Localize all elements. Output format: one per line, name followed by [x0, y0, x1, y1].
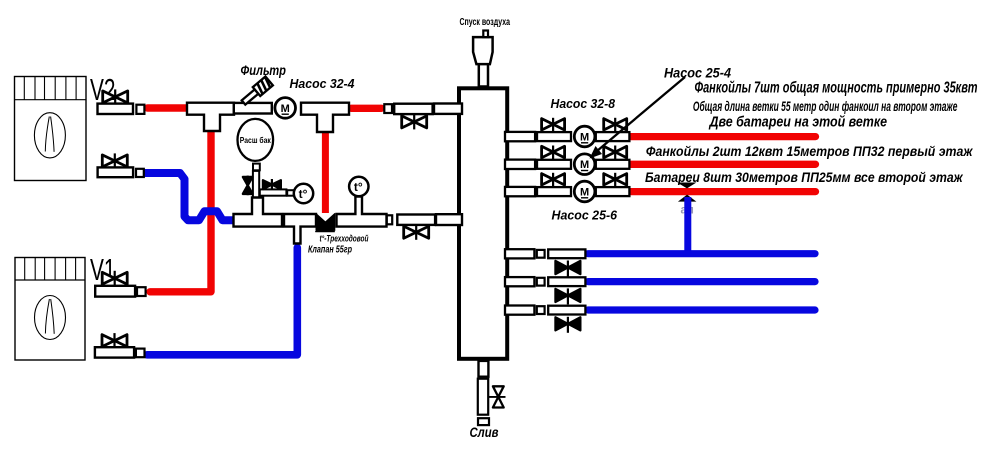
valve branch3b [604, 173, 627, 187]
connector square under tank [253, 164, 260, 171]
connector square before thermometer 1 [287, 190, 294, 196]
vertical valve on tank pipe [243, 176, 253, 196]
boiler V2 [15, 77, 87, 181]
svg-text:Насос 32-4: Насос 32-4 [290, 76, 356, 91]
battery tap: triangle above red pipe 3 [677, 183, 696, 189]
svg-text:Насос 25-6: Насос 25-6 [552, 208, 618, 223]
hydraulic separator [459, 88, 507, 359]
wire: red vertical from tee1 down to V1 supply corner [150, 129, 211, 292]
tee T2 on supply line [301, 103, 349, 132]
svg-text:Расш бак: Расш бак [240, 135, 272, 145]
valve branch3a [542, 173, 565, 187]
separator supply port (left) [434, 104, 462, 114]
pipe rect branch2a [537, 160, 571, 169]
valve on V2 supply [103, 89, 128, 104]
supply branch 2 (Насос 25-4) [505, 146, 816, 175]
svg-text:Спуск воздуха: Спуск воздуха [460, 17, 511, 28]
arrow from label Насос 25-4 to pump branch2 [597, 77, 685, 151]
pipe rect return1 [548, 249, 585, 258]
return branch 2 [505, 277, 815, 304]
air vent on separator top [473, 31, 493, 87]
filter F1 [240, 77, 273, 107]
pipe stub V1 return [95, 347, 134, 357]
svg-text:Фильтр: Фильтр [241, 63, 287, 78]
valve return2 [555, 288, 580, 304]
tee A on return line (stem up) [234, 198, 283, 227]
tee B on return line (stem down) [284, 214, 316, 244]
svg-text:Слив: Слив [470, 425, 499, 440]
valve branch1a [542, 118, 565, 132]
battery tap: arrow up below red pipe 3 [678, 195, 697, 202]
wire: blue battery riser [684, 197, 691, 254]
connector square return1 [537, 250, 545, 258]
thermometer t1 [294, 184, 313, 203]
supply branch 3 (Насос 25-6) [505, 173, 816, 202]
expansion tank Расш бак [238, 119, 274, 161]
blue pipe return3 [588, 306, 815, 313]
wire: blue return V2 S-path to tee A [143, 173, 237, 220]
pipe rect return2 [548, 277, 585, 286]
valve on V2 return [102, 153, 127, 168]
connector square V2 supply [136, 105, 144, 114]
red pipe to fancoils branch1 [631, 133, 816, 140]
red pipe branch2 [631, 161, 816, 168]
valve return1 [555, 261, 580, 277]
pipe stub V2 return [98, 167, 134, 177]
connector square V1 supply [137, 287, 146, 296]
svg-text:Общая длина ветки 55 метр один: Общая длина ветки 55 метр один фанкоил н… [693, 99, 958, 114]
pipe rect return3 [548, 306, 585, 315]
wire: red after tee2 to valve stub [351, 105, 382, 112]
separator port return1 [505, 249, 534, 258]
svg-text:Насос 25-4: Насос 25-4 [664, 64, 731, 80]
tee T1 on supply line [187, 103, 234, 131]
separator port branch1 [505, 132, 535, 141]
supply branch 1 (Насос 32-8) [505, 118, 816, 147]
valve branch1b [604, 118, 627, 132]
connector square return3 [537, 306, 545, 314]
drain end square [478, 418, 489, 425]
drain valve [489, 386, 506, 407]
boiler V1 [15, 258, 85, 361]
small valve on branch [263, 179, 281, 190]
valve return3 [555, 317, 580, 333]
pipe stub under filter [234, 103, 272, 114]
red pipe branch3 [631, 188, 816, 195]
connector square after red supply [384, 104, 392, 113]
wire: red supply V2 to tee [148, 104, 186, 111]
drain pipe [478, 379, 488, 415]
valve on V1 return [102, 333, 127, 348]
svg-text:Насос 32-8: Насос 32-8 [551, 96, 616, 111]
pump branch3 [574, 181, 595, 202]
wire: blue return V1 to tee B stem [147, 248, 297, 355]
pipe stub V1 supply [95, 286, 135, 297]
separator port return2 [505, 277, 534, 286]
pipe rect branch1b [596, 132, 630, 141]
pipe rect branch2b [596, 160, 630, 169]
return branch 3 [505, 306, 815, 333]
separator port return3 [505, 306, 534, 315]
branch pipe right of tank pipe [260, 189, 287, 195]
valve branch2b [604, 146, 627, 160]
return branch 1 [505, 249, 815, 276]
separator port branch2 [505, 160, 535, 169]
separator port branch3 [505, 187, 535, 196]
svg-text:t°-Трехходовой: t°-Трехходовой [320, 234, 369, 245]
wire: red vertical tee2 down to three-way valve [322, 130, 329, 214]
pipe rect branch1a [537, 132, 571, 141]
separator return port (left) [436, 214, 462, 225]
pump branch2 [574, 154, 595, 175]
valve on V1 supply [102, 271, 127, 286]
valve on return stub [404, 225, 429, 240]
pipe stub with valve before separator (return) [397, 215, 435, 225]
valve branch2a [542, 146, 565, 160]
connector square return2 [537, 278, 545, 286]
svg-text:Клапан 55гр: Клапан 55гр [308, 245, 352, 256]
vertical pipe from tank to tee A [253, 171, 259, 198]
pump U1 Насос 32-4 [275, 98, 296, 119]
svg-text:Фанкойлы 2шт 12квт 15метров ПП: Фанкойлы 2шт 12квт 15метров ПП32 первый … [646, 143, 973, 159]
blue pipe return2 [588, 278, 815, 285]
tee C on return line (stem up, thermometer) [337, 197, 387, 227]
three-way valve (black) [316, 214, 335, 232]
connector square V2 return [136, 169, 144, 177]
svg-text:Две батареи на этой ветке: Две батареи на этой ветке [708, 115, 887, 131]
connector square V1 return [136, 349, 145, 358]
thermometer t2 [349, 177, 368, 196]
blue pipe return1 [588, 250, 815, 257]
pipe stub V2 supply [98, 104, 134, 114]
valve on supply stub [402, 114, 427, 129]
connector square on return line [387, 215, 392, 224]
pipe rect branch3b [596, 187, 630, 196]
svg-text:Фанкойлы 7шт общая мощность пр: Фанкойлы 7шт общая мощность примерно 35к… [695, 80, 978, 97]
pipe stub with valve before separator (supply) [394, 104, 432, 114]
drain stem under separator [479, 361, 489, 377]
pipe rect branch3a [537, 187, 571, 196]
pump branch1 [574, 126, 595, 147]
